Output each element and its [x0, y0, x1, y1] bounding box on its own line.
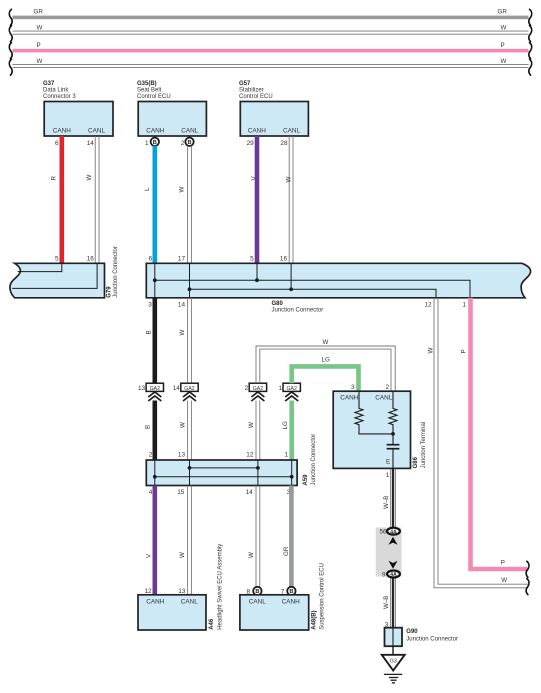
wire W (A59 pin 15 to A46 pin 13): [179, 486, 191, 595]
arrow up (male half): [389, 537, 398, 545]
svg-text:2: 2: [181, 140, 185, 147]
svg-text:W: W: [501, 577, 507, 584]
svg-text:17: 17: [178, 256, 186, 263]
svg-text:W: W: [86, 175, 93, 181]
connector G57 Stabilizer Control ECU: [239, 81, 308, 147]
wire B (G80 pin 3 to GA2 pin 13): [146, 298, 155, 383]
wire B (GA2 pin 13 to A59 pin 2): [145, 401, 155, 461]
svg-text:W: W: [248, 422, 255, 428]
svg-text:W: W: [501, 58, 507, 65]
svg-text:2: 2: [385, 384, 389, 391]
svg-text:15: 15: [177, 489, 185, 496]
svg-text:CANH: CANH: [146, 598, 164, 605]
junction connector G90: [385, 622, 459, 647]
wire V (A59 pin 4 to A46 pin 12): [146, 486, 155, 595]
svg-text:CANH: CANH: [340, 395, 358, 402]
resistor (CANL side): [389, 391, 397, 434]
svg-text:5: 5: [55, 256, 59, 263]
svg-text:W: W: [323, 339, 329, 346]
svg-text:16: 16: [280, 256, 288, 263]
svg-text:14: 14: [178, 302, 186, 309]
wire (G90 to ground): [392, 646, 394, 655]
svg-text:14: 14: [173, 385, 181, 392]
svg-text:CANL: CANL: [375, 395, 392, 402]
svg-text:G90: G90: [406, 629, 418, 635]
wire W (G80 pin 12 to right edge): [428, 298, 529, 595]
wire LG (GA2 pin 1 to A59 pin 1): [282, 401, 292, 461]
svg-text:B: B: [146, 330, 153, 334]
svg-text:P: P: [37, 42, 41, 49]
wire W (GA2 pin 2 to A59 pin 12): [248, 401, 260, 461]
svg-text:B: B: [153, 140, 157, 146]
svg-text:29: 29: [247, 140, 255, 147]
svg-text:CANH: CANH: [248, 128, 266, 135]
inline connector 4A (shield area): [376, 528, 402, 577]
svg-text:B: B: [145, 425, 152, 429]
svg-text:14: 14: [246, 489, 254, 496]
inline connector GA2 pin 2: [245, 383, 267, 401]
svg-text:R: R: [51, 176, 58, 181]
wire W (GA2 pin 14 to A59 pin 13): [179, 401, 191, 461]
wire W (G57 CANL to G80 pin 16): [286, 136, 293, 263]
svg-text:Junction Connector: Junction Connector: [113, 246, 119, 298]
svg-text:Suspension Control ECU: Suspension Control ECU: [319, 563, 325, 630]
inline connector GA2 pin 14: [173, 383, 199, 401]
svg-text:Junction Connector: Junction Connector: [406, 637, 458, 643]
svg-text:G80: G80: [272, 301, 284, 307]
svg-text:W: W: [37, 24, 43, 31]
svg-text:Junction Connector: Junction Connector: [311, 434, 317, 486]
wire W loop (GA2 pin 2 to G86 pin 2): [256, 339, 395, 391]
svg-text:G57: G57: [239, 81, 251, 87]
bus wire GR (top trunk): [9, 9, 531, 26]
svg-text:A59: A59: [303, 474, 309, 486]
svg-text:W: W: [178, 187, 185, 193]
svg-text:1: 1: [145, 140, 149, 147]
svg-text:E: E: [386, 458, 390, 465]
svg-text:CANL: CANL: [283, 128, 300, 135]
svg-text:Connector 3: Connector 3: [43, 94, 76, 100]
connector A48(B) Suspension Control ECU: [240, 563, 325, 630]
svg-text:3: 3: [351, 384, 355, 391]
junction connector G80: [146, 256, 530, 314]
svg-text:9: 9: [382, 571, 386, 578]
svg-text:2: 2: [245, 385, 249, 392]
connector A46 Headlight Swivel ECU Assembly: [138, 544, 223, 630]
svg-text:Control ECU: Control ECU: [239, 94, 273, 100]
svg-text:G35(B): G35(B): [137, 81, 157, 87]
svg-text:A48(B): A48(B): [311, 610, 317, 629]
svg-text:W: W: [428, 348, 435, 354]
wire W (G35 CANL to G80 pin 17): [178, 146, 191, 263]
junction node: [391, 432, 395, 436]
svg-text:4A: 4A: [390, 572, 397, 578]
connector 4A pin 9: [382, 571, 400, 579]
connector G37 Data Link Connector 3: [43, 81, 113, 147]
svg-text:Seat Belt: Seat Belt: [137, 88, 162, 94]
wire L (G35 CANH to G80 pin 6): [144, 146, 155, 263]
svg-text:W: W: [37, 58, 43, 65]
svg-text:5: 5: [250, 256, 254, 263]
wire W (A59 pin 14 to A48 pin 8): [248, 486, 260, 588]
junction terminal G86: [333, 384, 427, 479]
svg-text:CANH: CANH: [282, 598, 300, 605]
svg-text:G37: G37: [43, 81, 55, 87]
svg-text:W: W: [501, 24, 507, 31]
ground G3: [382, 655, 405, 683]
svg-text:G79: G79: [107, 286, 113, 298]
svg-text:56: 56: [379, 528, 387, 535]
svg-text:W: W: [179, 422, 186, 428]
svg-text:W–B: W–B: [383, 596, 390, 609]
svg-text:CANH: CANH: [53, 128, 71, 135]
svg-text:W: W: [248, 552, 255, 558]
svg-text:Junction Terminal: Junction Terminal: [421, 422, 427, 469]
svg-text:CANL: CANL: [88, 128, 105, 135]
svg-text:12: 12: [246, 452, 254, 459]
svg-text:W: W: [179, 552, 186, 558]
wire W (G37 CANL to G79 pin 16): [86, 136, 99, 263]
svg-text:13: 13: [138, 385, 146, 392]
svg-text:LG: LG: [322, 356, 330, 363]
svg-text:P: P: [501, 560, 505, 567]
svg-text:L: L: [144, 187, 151, 191]
wire W (G80 pin 14 to GA2 pin 14): [179, 298, 191, 383]
bus wire P (third trunk): [9, 42, 531, 59]
svg-text:Data Link: Data Link: [43, 88, 69, 94]
wire R (G37 CANH to G79 pin 5): [51, 136, 62, 263]
svg-text:LG: LG: [282, 421, 289, 429]
svg-text:Headlight Swivel ECU Assembly: Headlight Swivel ECU Assembly: [217, 544, 223, 630]
svg-text:P: P: [501, 42, 505, 49]
svg-text:1: 1: [462, 302, 466, 309]
svg-text:6: 6: [55, 140, 59, 147]
svg-text:V: V: [146, 553, 153, 558]
pin 1 circle B (G35 CANH): [145, 136, 159, 147]
arrow down (female half): [389, 561, 398, 569]
resistor (CANH side): [355, 391, 393, 434]
svg-text:G86: G86: [413, 456, 419, 468]
svg-text:W–B: W–B: [383, 496, 390, 509]
svg-text:28: 28: [280, 140, 288, 147]
svg-text:6: 6: [149, 256, 153, 263]
svg-text:Control ECU: Control ECU: [137, 94, 171, 100]
svg-text:Junction Connector: Junction Connector: [272, 308, 324, 314]
svg-text:1: 1: [284, 452, 288, 459]
svg-text:4: 4: [149, 489, 153, 496]
inline connector GA2 pin 1: [278, 383, 300, 401]
svg-text:CANL: CANL: [181, 128, 198, 135]
bus wire W (second trunk): [9, 24, 531, 41]
connector G35(B) Seat Belt Control ECU: [137, 81, 206, 136]
svg-text:12: 12: [424, 302, 432, 309]
svg-text:2: 2: [149, 452, 153, 459]
capacitor: [392, 434, 394, 444]
svg-text:W: W: [286, 177, 293, 183]
svg-text:P: P: [461, 349, 468, 353]
wire P (G80 pin 1 to right edge): [461, 298, 529, 578]
svg-text:16: 16: [87, 256, 95, 263]
inline connector GA2 pin 13: [138, 383, 164, 401]
wire LG loop (GA2 pin 1 to G86 pin 3): [292, 356, 359, 391]
pin 2 circle B (G35 CANL): [181, 136, 194, 147]
svg-text:GR: GR: [283, 546, 290, 556]
wire GR (A59 pin 3 to A48 pin 7): [283, 486, 292, 588]
svg-text:13: 13: [178, 452, 186, 459]
svg-text:GR: GR: [498, 9, 508, 16]
wire V (G57 CANH to G80 pin 5): [251, 136, 258, 263]
svg-text:W: W: [179, 330, 186, 336]
svg-text:14: 14: [87, 140, 95, 147]
svg-text:A46: A46: [209, 618, 215, 630]
svg-text:4A: 4A: [390, 529, 397, 535]
svg-text:B: B: [187, 140, 191, 146]
svg-text:G3: G3: [389, 659, 396, 665]
svg-text:GR: GR: [34, 9, 44, 16]
svg-text:1: 1: [386, 472, 390, 479]
junction connector G79: [10, 246, 119, 298]
svg-text:3: 3: [148, 302, 152, 309]
svg-text:1: 1: [278, 385, 282, 392]
svg-text:CANL: CANL: [249, 598, 266, 605]
svg-text:Stabilizer: Stabilizer: [239, 88, 264, 94]
bus wire W (fourth trunk): [9, 58, 531, 75]
svg-text:CANL: CANL: [181, 598, 198, 605]
connector 4A pin 56: [379, 528, 399, 536]
junction connector A59: [146, 434, 317, 496]
svg-text:CANH: CANH: [146, 128, 164, 135]
wire W-B (G86 pin 1 to G90 pin 3): [383, 468, 395, 627]
